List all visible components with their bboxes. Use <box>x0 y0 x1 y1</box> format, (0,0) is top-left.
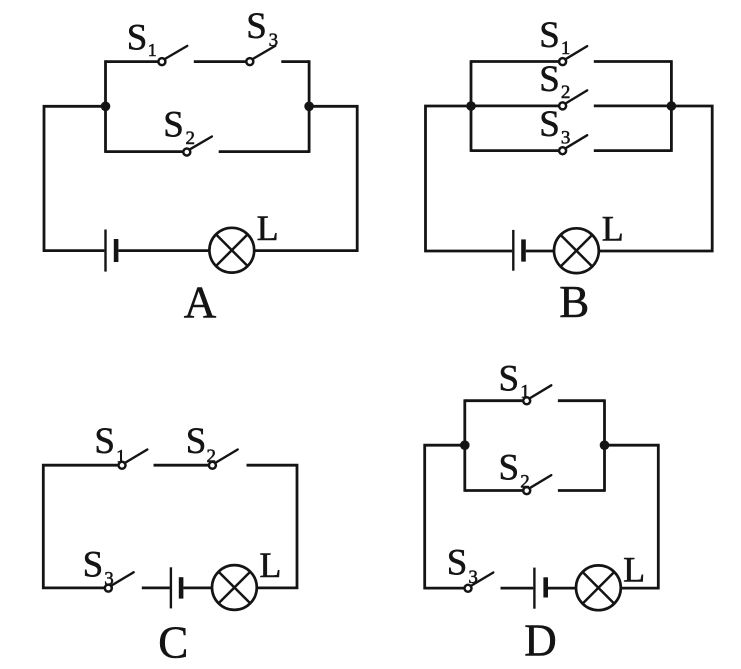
lamp L (circuit A) <box>209 228 254 273</box>
wire <box>106 60 158 63</box>
svg-text:B: B <box>559 277 589 327</box>
wire <box>106 150 183 153</box>
svg-text:S: S <box>539 59 560 100</box>
wire <box>670 60 673 152</box>
wire <box>463 399 466 491</box>
wire <box>526 250 554 253</box>
svg-text:3: 3 <box>561 128 571 149</box>
wire <box>104 60 107 153</box>
wire <box>43 465 117 588</box>
svg-text:S: S <box>246 6 267 47</box>
svg-text:S: S <box>83 544 104 585</box>
wire <box>594 60 672 63</box>
lamp L (circuit D) <box>576 565 621 610</box>
svg-text:S: S <box>499 358 520 399</box>
wire <box>426 106 513 251</box>
wire <box>142 587 170 590</box>
wire <box>471 105 558 108</box>
wire <box>281 60 309 63</box>
svg-text:S: S <box>163 104 184 145</box>
svg-text:D: D <box>524 616 557 666</box>
battery (circuit C) <box>171 567 181 608</box>
switch S1 (circuit C) <box>119 450 148 469</box>
wire <box>501 587 534 590</box>
svg-text:L: L <box>623 549 645 589</box>
svg-text:A: A <box>184 278 217 328</box>
svg-text:S: S <box>447 542 468 583</box>
wire <box>465 399 523 402</box>
wire <box>471 149 558 152</box>
wire <box>44 106 106 250</box>
lamp L (circuit C) <box>212 565 257 610</box>
svg-text:1: 1 <box>520 382 530 403</box>
battery (circuit A) <box>106 230 117 272</box>
switch S2 (circuit D) <box>523 475 551 494</box>
wire <box>599 106 713 251</box>
svg-text:S: S <box>94 421 115 462</box>
switch S1 (circuit D) <box>523 385 551 404</box>
wire <box>558 489 605 492</box>
wire <box>425 445 465 588</box>
switch S1 (circuit B) <box>559 46 587 65</box>
switch S2 (circuit C) <box>209 450 238 469</box>
svg-text:2: 2 <box>561 82 571 103</box>
svg-text:L: L <box>602 208 624 248</box>
svg-text:S: S <box>539 104 560 145</box>
svg-text:L: L <box>259 545 281 585</box>
wire <box>548 587 576 590</box>
junction (B left node) <box>466 101 476 111</box>
wire <box>470 60 473 152</box>
svg-text:2: 2 <box>186 128 196 149</box>
svg-text:1: 1 <box>561 38 571 59</box>
battery (circuit B) <box>513 230 523 271</box>
wire <box>594 149 672 152</box>
battery (circuit D) <box>534 568 545 609</box>
svg-text:2: 2 <box>207 446 217 467</box>
svg-text:S: S <box>539 15 560 56</box>
wire <box>194 60 246 63</box>
junction (D right node) <box>600 440 610 450</box>
junction (D left node) <box>460 440 470 450</box>
wire <box>603 399 606 491</box>
wire <box>183 587 212 590</box>
wire <box>254 106 357 250</box>
switch S3 (circuit D) <box>465 573 494 592</box>
svg-text:C: C <box>158 617 188 667</box>
svg-text:3: 3 <box>104 569 114 590</box>
switch S2 (circuit B) <box>559 90 587 109</box>
switch S1 (circuit A) <box>158 46 187 65</box>
junction (B right node) <box>667 101 677 111</box>
svg-text:2: 2 <box>520 472 530 493</box>
svg-text:S: S <box>127 17 148 58</box>
svg-text:S: S <box>186 421 207 462</box>
wire <box>594 105 672 108</box>
svg-text:3: 3 <box>269 30 279 51</box>
wire <box>118 249 209 252</box>
junction (A right node) <box>304 102 314 112</box>
switch S3 (circuit C) <box>105 572 134 591</box>
svg-text:L: L <box>257 208 279 248</box>
svg-text:1: 1 <box>148 40 157 60</box>
wire <box>308 60 311 153</box>
wire <box>219 150 309 153</box>
wire <box>605 445 659 588</box>
svg-text:S: S <box>499 448 520 489</box>
junction (A left node) <box>101 102 111 112</box>
wire <box>558 399 605 402</box>
wire <box>471 60 558 63</box>
wire <box>247 465 298 588</box>
wire <box>154 464 209 467</box>
wire <box>465 489 523 492</box>
switch S2 (circuit A) <box>183 137 212 156</box>
switch S3 (circuit A) <box>246 46 275 65</box>
svg-text:1: 1 <box>116 446 125 466</box>
lamp L (circuit B) <box>554 228 599 273</box>
switch S3 (circuit B) <box>559 135 587 154</box>
svg-text:3: 3 <box>468 567 478 588</box>
